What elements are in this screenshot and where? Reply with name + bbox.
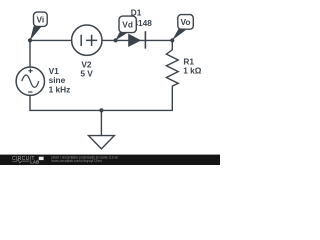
watermark bar [0, 155, 220, 165]
voltage source V2 (5 V dc) [72, 25, 102, 55]
junction node Vd [114, 38, 118, 42]
node flag Vo [172, 15, 193, 41]
junction node Vo [170, 38, 174, 42]
watermark logo CircuitLab [12, 156, 44, 165]
diode D1 [128, 31, 145, 48]
ground [89, 110, 115, 148]
node flag Vd [115, 16, 136, 40]
voltage source V1 (sine 1 kHz) [16, 67, 44, 95]
resistor R1 [166, 40, 178, 110]
label V2 value [80, 60, 93, 79]
junction node Vi [28, 38, 32, 42]
svg-text:1 kHz: 1 kHz [49, 84, 71, 94]
svg-text:LAB: LAB [30, 160, 39, 165]
wire V2 to diode to Vo node [102, 39, 172, 41]
wire V1 bottom to bottom rail [29, 95, 31, 110]
svg-text:Vi: Vi [36, 14, 44, 24]
wire left vertical (Vi node down to V1 top) [29, 40, 31, 67]
wire top-left horizontal (Vi node to V2) [30, 39, 72, 41]
wire bottom rail [30, 109, 172, 111]
junction ground node [99, 108, 103, 112]
label V1 value [49, 66, 71, 95]
svg-text:Vd: Vd [122, 20, 133, 30]
svg-text:www.circuitlab.com/c/bqnq472/e: www.circuitlab.com/c/bqnq472/en [52, 159, 102, 163]
label R1 value [183, 57, 202, 76]
svg-text:Vo: Vo [181, 17, 191, 27]
svg-text:1 kΩ: 1 kΩ [183, 66, 202, 76]
svg-text:5 V: 5 V [80, 68, 93, 78]
node flag Vi [30, 12, 47, 40]
